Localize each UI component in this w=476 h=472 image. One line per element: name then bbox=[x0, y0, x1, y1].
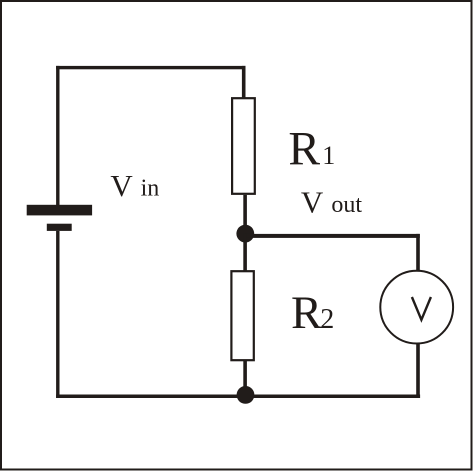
voltmeter V (meter body) bbox=[380, 271, 453, 344]
resistor R1 bbox=[232, 98, 255, 194]
wire: top-right vertical drop into R1 bbox=[242, 66, 246, 99]
svg-text:2: 2 bbox=[320, 304, 334, 335]
voltmeter V letter mark bbox=[412, 297, 431, 320]
wire: Vout horizontal to voltmeter branch bbox=[245, 234, 419, 238]
node: Vout junction (filled dot) bbox=[236, 225, 254, 243]
wire: left vertical from top wire down to battery + plate bbox=[56, 66, 59, 206]
svg-text:V: V bbox=[110, 168, 133, 203]
wire: voltmeter bottom lead to bottom wire bbox=[416, 344, 420, 397]
wire: bottom horizontal from left branch to voltmeter branch bbox=[56, 395, 420, 399]
wire: top horizontal from left branch to R1 branch bbox=[56, 66, 245, 69]
battery (V in source): positive plate bbox=[27, 205, 92, 216]
wire: voltmeter top lead bbox=[416, 234, 420, 271]
wire: R2 bottom lead to bottom node bbox=[243, 360, 247, 395]
svg-text:R: R bbox=[291, 288, 322, 339]
wire: R1 bottom lead to node Vout bbox=[243, 195, 247, 234]
resistor R2 bbox=[231, 271, 253, 360]
svg-text:R: R bbox=[288, 123, 320, 175]
svg-text:in: in bbox=[141, 175, 160, 201]
battery (V in source): negative plate bbox=[47, 224, 72, 231]
node: bottom junction (filled dot) bbox=[237, 386, 255, 404]
wire: node Vout down to R2 bbox=[243, 234, 247, 272]
wire: left vertical from battery - plate down to bottom wire bbox=[56, 231, 59, 398]
svg-text:1: 1 bbox=[322, 141, 335, 170]
svg-text:V: V bbox=[301, 184, 324, 219]
svg-text:out: out bbox=[331, 192, 362, 218]
